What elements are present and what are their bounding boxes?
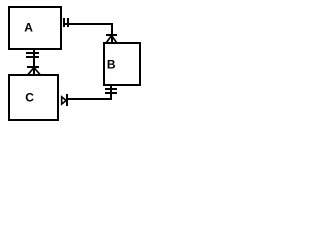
wire A to C (vertical stem)	[33, 50, 35, 74]
svg-text:A: A	[24, 20, 33, 34]
wire A to B (horizontal, top)	[63, 23, 113, 25]
svg-text:B: B	[107, 57, 116, 71]
block A	[9, 7, 61, 49]
wire stem up to B bottom	[110, 86, 112, 100]
capacitor plates at A right edge	[63, 18, 65, 27]
svg-text:C: C	[25, 90, 34, 104]
diode bar	[66, 94, 68, 106]
block C	[9, 75, 58, 120]
anchor bar on B top	[106, 34, 117, 36]
wire stem down to anchor on B top	[111, 23, 113, 42]
anchor legs on C top	[28, 68, 40, 75]
diode triangle at C right edge	[62, 97, 66, 104]
anchor bar on C top	[27, 66, 39, 68]
capacitor plates at B bottom edge	[105, 88, 117, 90]
capacitor plates at A bottom edge	[26, 52, 39, 54]
block B	[104, 43, 140, 85]
anchor legs on B top	[106, 36, 116, 43]
wire C to B (horizontal, bottom)	[67, 98, 112, 100]
